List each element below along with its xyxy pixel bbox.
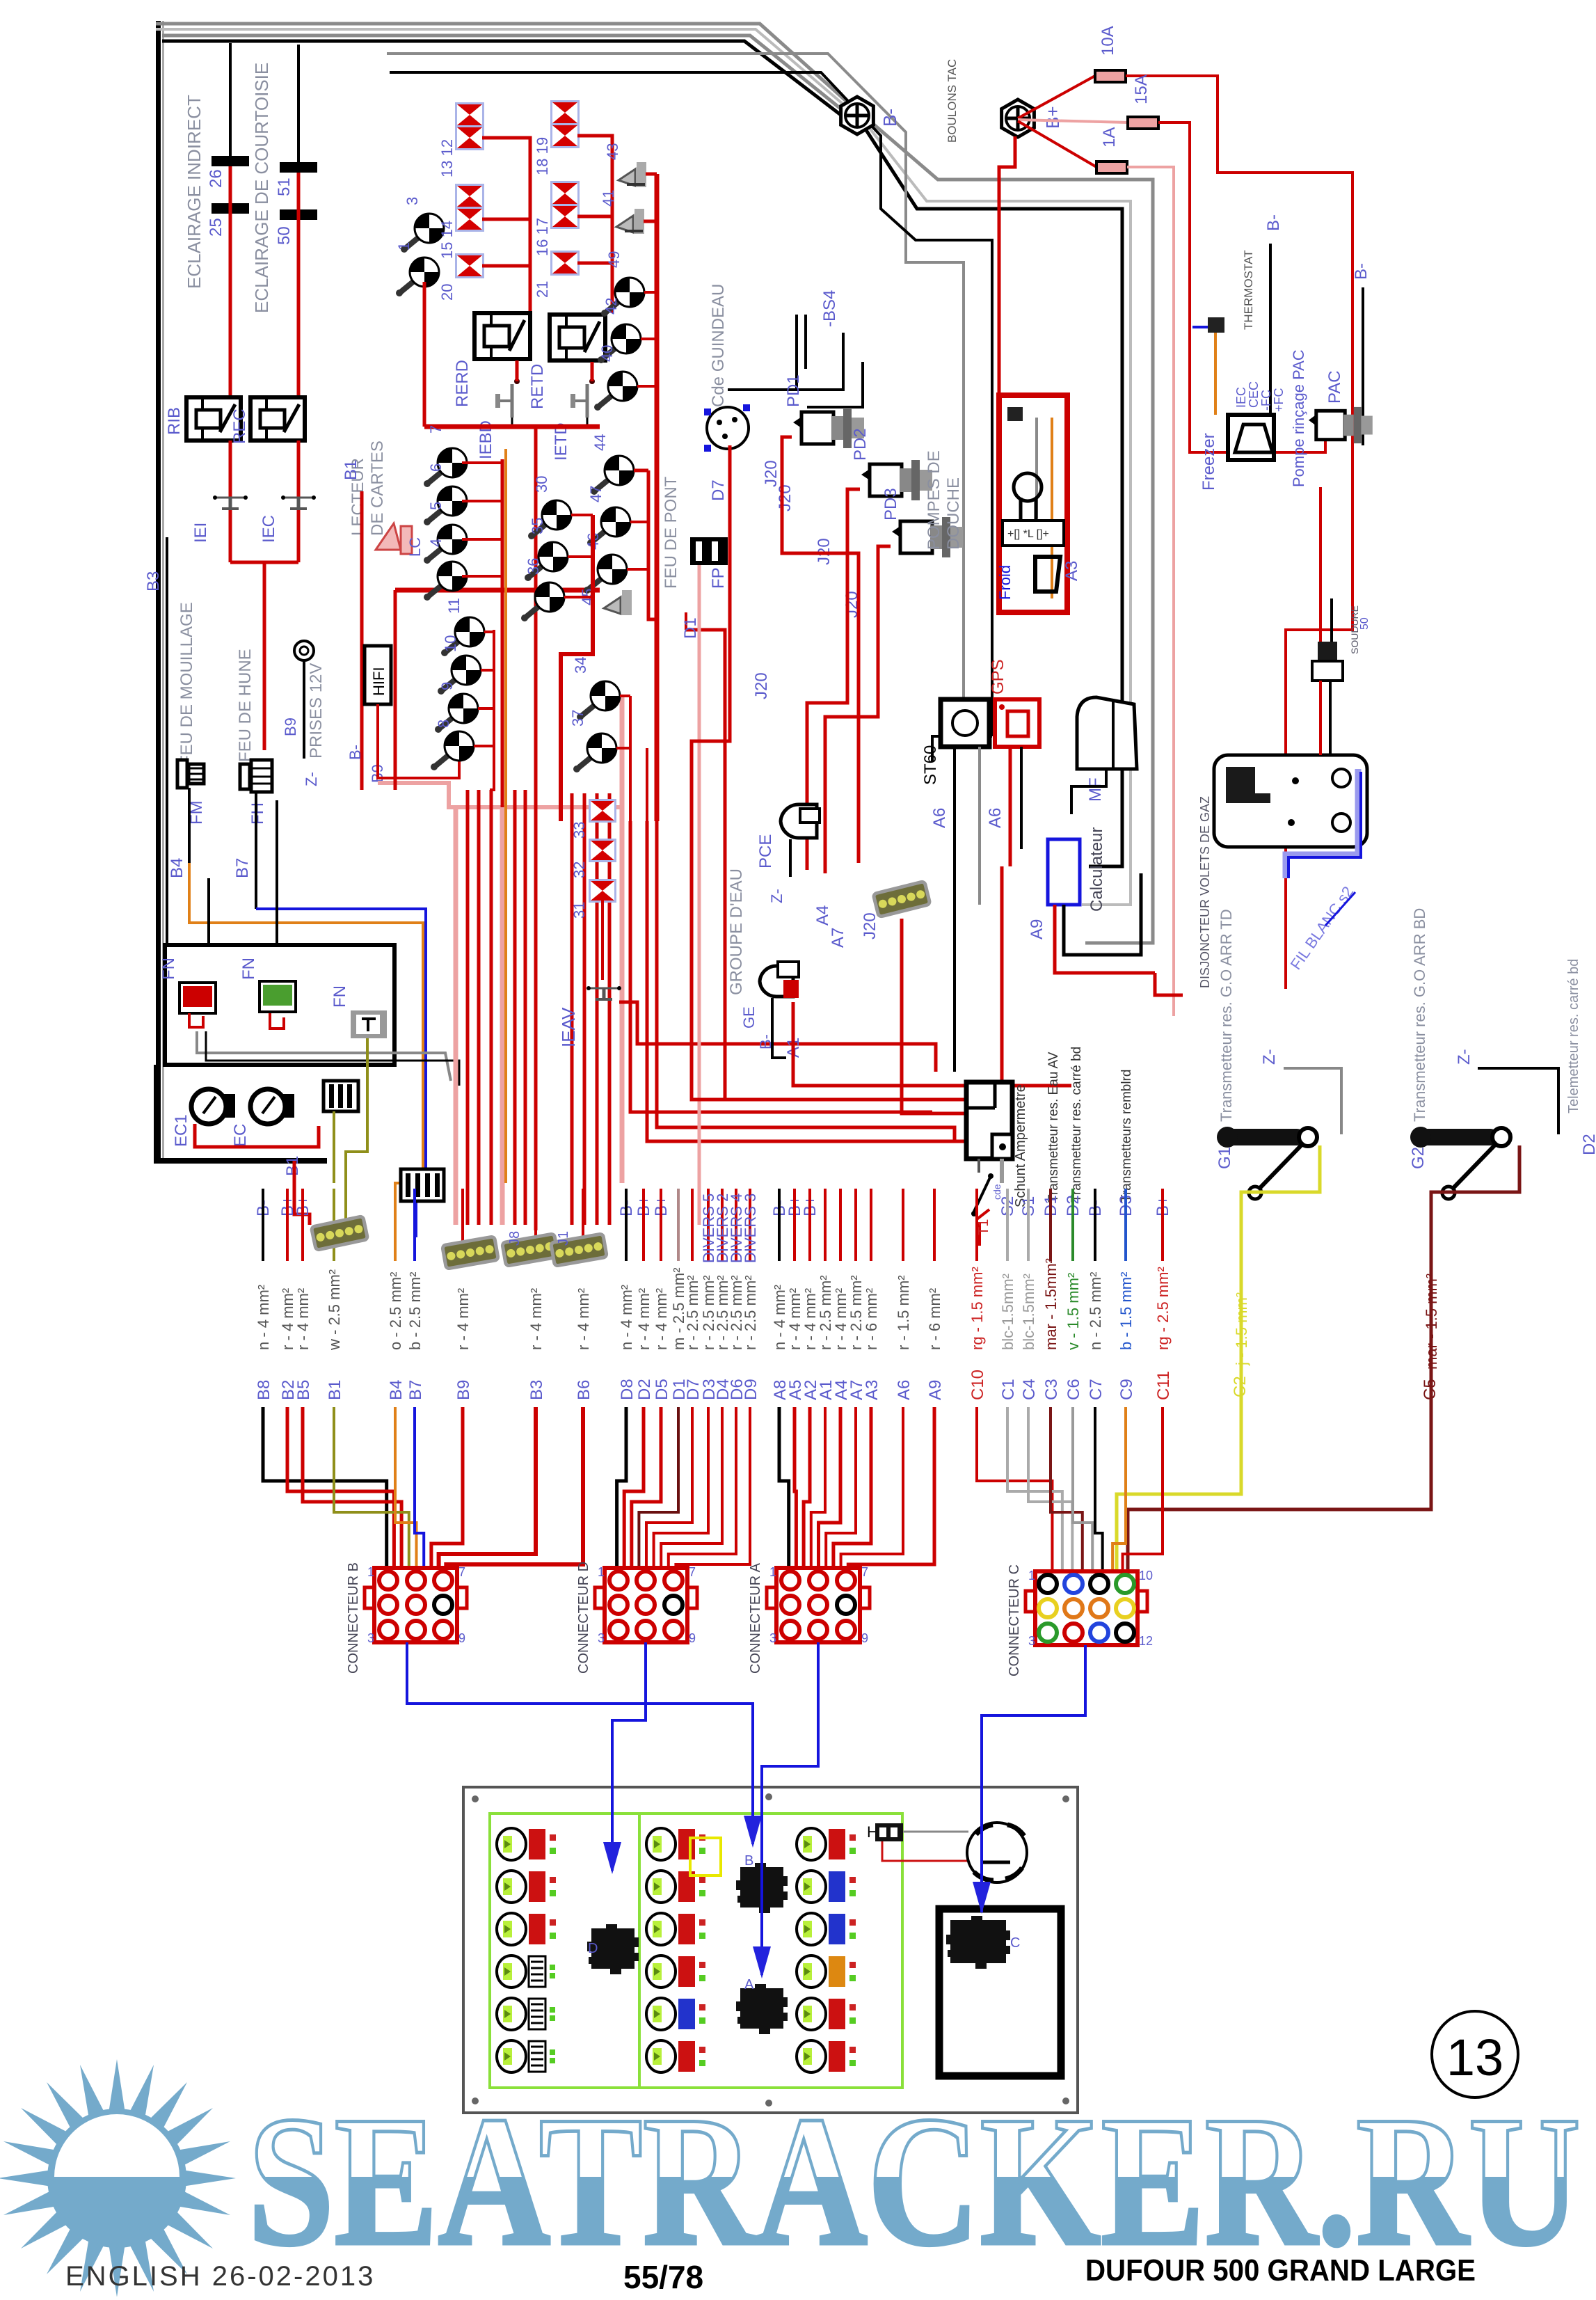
svg-text:DUFOUR 500 GRAND LARGE: DUFOUR 500 GRAND LARGE: [1085, 2253, 1476, 2287]
svg-text:FN: FN: [239, 958, 258, 980]
svg-text:41: 41: [600, 190, 617, 207]
svg-text:rg - 1.5 mm²: rg - 1.5 mm²: [968, 1267, 986, 1350]
svg-text:25: 25: [207, 218, 225, 237]
svg-text:GPS: GPS: [989, 659, 1007, 695]
svg-text:37: 37: [569, 710, 586, 727]
svg-text:Schunt Ampermetre: Schunt Ampermetre: [1013, 1084, 1028, 1207]
svg-text:A9: A9: [926, 1380, 945, 1400]
svg-text:Z-: Z-: [1260, 1049, 1279, 1065]
svg-text:IEAV: IEAV: [558, 1007, 579, 1047]
svg-text:C9: C9: [1117, 1379, 1136, 1400]
svg-text:n - 2.5 mm²: n - 2.5 mm²: [1087, 1272, 1104, 1350]
svg-text:D8: D8: [618, 1379, 637, 1400]
svg-text:1A: 1A: [1100, 127, 1119, 148]
svg-text:D7: D7: [709, 479, 728, 501]
svg-text:DOUCHE: DOUCHE: [944, 477, 963, 550]
svg-text:IEC: IEC: [1234, 387, 1248, 408]
svg-text:B-: B-: [1264, 214, 1283, 231]
svg-text:13: 13: [1446, 2029, 1503, 2086]
svg-text:C4: C4: [1020, 1379, 1039, 1400]
svg-text:B7: B7: [406, 1380, 425, 1400]
svg-text:b - 1.5 mm²: b - 1.5 mm²: [1117, 1272, 1135, 1350]
svg-text:16 17: 16 17: [534, 218, 551, 256]
svg-text:r - 2.5 mm²: r - 2.5 mm²: [742, 1275, 759, 1350]
svg-text:FN: FN: [159, 958, 178, 980]
svg-text:8: 8: [435, 720, 452, 728]
svg-text:CONNECTEUR D: CONNECTEUR D: [576, 1562, 591, 1674]
svg-text:1: 1: [367, 1565, 374, 1579]
svg-text:10: 10: [1139, 1569, 1153, 1583]
svg-text:CONNECTEUR B: CONNECTEUR B: [346, 1562, 361, 1674]
svg-text:PCE: PCE: [756, 834, 775, 869]
svg-text:Transmetteur res. Eau AV: Transmetteur res. Eau AV: [1046, 1052, 1061, 1203]
svg-text:7: 7: [861, 1565, 868, 1579]
svg-text:THERMOSTAT: THERMOSTAT: [1242, 250, 1255, 330]
svg-text:D: D: [588, 1941, 598, 1956]
svg-text:r - 4 mm²: r - 4 mm²: [294, 1288, 312, 1350]
svg-text:IEC: IEC: [260, 515, 278, 543]
svg-text:C10: C10: [968, 1370, 987, 1400]
svg-text:MF: MF: [1086, 777, 1105, 802]
svg-text:G1: G1: [1215, 1147, 1234, 1169]
svg-text:DIVERS 3: DIVERS 3: [742, 1193, 759, 1263]
svg-text:9: 9: [861, 1631, 868, 1645]
svg-text:B5: B5: [294, 1380, 313, 1400]
svg-text:43: 43: [604, 143, 621, 160]
svg-text:J20: J20: [776, 484, 795, 511]
svg-text:15 14: 15 14: [438, 221, 456, 259]
svg-text:CEC: CEC: [1247, 381, 1261, 408]
svg-text:+FC: +FC: [1272, 388, 1286, 412]
svg-text:35: 35: [529, 518, 546, 534]
svg-text:j - 1.5 mm²: j - 1.5 mm²: [1233, 1292, 1250, 1366]
svg-text:LC: LC: [406, 537, 424, 557]
svg-text:CONNECTEUR A: CONNECTEUR A: [748, 1562, 763, 1674]
svg-text:15A: 15A: [1132, 74, 1151, 104]
svg-text:B7: B7: [233, 858, 252, 878]
svg-text:D2: D2: [1580, 1134, 1596, 1155]
svg-text:5: 5: [427, 502, 445, 510]
svg-text:A6: A6: [986, 808, 1005, 828]
svg-text:B9: B9: [282, 717, 299, 736]
svg-text:1: 1: [395, 242, 413, 251]
svg-text:44: 44: [591, 434, 609, 451]
svg-text:r - 4 mm²: r - 4 mm²: [575, 1288, 592, 1350]
svg-text:J20: J20: [861, 912, 879, 939]
svg-text:ENGLISH 26-02-2013: ENGLISH 26-02-2013: [65, 2261, 375, 2292]
svg-text:B+: B+: [1042, 106, 1063, 129]
svg-text:r - 4 mm²: r - 4 mm²: [635, 1288, 653, 1350]
svg-text:J1: J1: [556, 1231, 571, 1246]
svg-text:J20: J20: [752, 672, 771, 699]
svg-text:n - 4 mm²: n - 4 mm²: [255, 1285, 272, 1350]
svg-text:G2: G2: [1409, 1147, 1428, 1169]
svg-text:w - 2.5 mm²: w - 2.5 mm²: [326, 1269, 343, 1351]
svg-text:blc-1.5mm²: blc-1.5mm²: [999, 1274, 1016, 1350]
svg-text:26: 26: [207, 169, 225, 188]
svg-text:A6: A6: [930, 808, 949, 828]
svg-text:mar - 1.5 mm²: mar - 1.5 mm²: [1423, 1274, 1440, 1370]
svg-text:Telemetteur res. carré bd: Telemetteur res. carré bd: [1566, 959, 1581, 1113]
svg-text:A4: A4: [813, 905, 832, 926]
svg-text:Transmetteur res. carré bd: Transmetteur res. carré bd: [1069, 1047, 1084, 1203]
svg-text:D1: D1: [681, 617, 700, 639]
svg-text:20: 20: [438, 284, 456, 301]
svg-text:B-: B-: [879, 109, 900, 127]
svg-text:r - 4 mm²: r - 4 mm²: [527, 1288, 545, 1350]
svg-text:blc-1.5mm²: blc-1.5mm²: [1020, 1274, 1037, 1350]
svg-text:RETD: RETD: [528, 364, 547, 409]
svg-text:n - 4 mm²: n - 4 mm²: [618, 1285, 635, 1350]
svg-text:34: 34: [572, 657, 589, 674]
svg-text:B3: B3: [527, 1380, 546, 1400]
svg-text:Froid: Froid: [996, 565, 1014, 600]
svg-text:55/78: 55/78: [623, 2259, 703, 2295]
svg-text:REC: REC: [230, 409, 249, 444]
svg-text:B1: B1: [326, 1380, 344, 1400]
svg-text:B9: B9: [454, 1380, 473, 1400]
svg-text:A9: A9: [1028, 919, 1046, 939]
svg-text:o - 2.5 mm²: o - 2.5 mm²: [387, 1272, 404, 1350]
svg-text:A7: A7: [829, 928, 847, 948]
svg-text:3: 3: [367, 1631, 374, 1645]
svg-text:50: 50: [275, 226, 294, 245]
svg-text:Calculateur: Calculateur: [1087, 827, 1106, 912]
svg-text:r - 6 mm²: r - 6 mm²: [863, 1288, 880, 1350]
svg-text:HIFI: HIFI: [370, 667, 388, 696]
svg-text:Freezer: Freezer: [1199, 433, 1218, 491]
svg-text:Z-: Z-: [768, 889, 785, 903]
svg-text:47: 47: [587, 486, 605, 502]
svg-text:D5: D5: [653, 1379, 671, 1400]
svg-text:C7: C7: [1087, 1379, 1106, 1400]
svg-text:GROUPE D'EAU: GROUPE D'EAU: [727, 869, 746, 995]
svg-text:7: 7: [689, 1565, 696, 1579]
svg-text:33: 33: [570, 822, 588, 839]
svg-text:b - 2.5 mm²: b - 2.5 mm²: [406, 1272, 424, 1350]
svg-text:42: 42: [603, 298, 620, 315]
svg-text:40: 40: [598, 345, 616, 362]
svg-text:T1: T1: [976, 1219, 991, 1235]
svg-text:9: 9: [438, 682, 456, 690]
svg-text:ECLAIRAGE INDIRECT: ECLAIRAGE INDIRECT: [184, 95, 205, 289]
svg-text:B4: B4: [168, 858, 186, 878]
svg-text:18 19: 18 19: [534, 137, 551, 175]
svg-text:50: 50: [1359, 617, 1371, 630]
svg-text:B4: B4: [387, 1380, 406, 1400]
svg-text:Pompe rinçage PAC: Pompe rinçage PAC: [1290, 349, 1307, 487]
svg-text:Transmetteurs remblrd: Transmetteurs remblrd: [1119, 1070, 1134, 1203]
svg-text:21: 21: [534, 281, 551, 298]
svg-text:4: 4: [427, 539, 445, 547]
svg-text:RERD: RERD: [453, 360, 472, 407]
svg-text:PAC: PAC: [1325, 370, 1344, 404]
svg-text:7: 7: [458, 1565, 465, 1579]
svg-text:49: 49: [605, 251, 623, 268]
svg-text:A3: A3: [1062, 561, 1081, 581]
svg-text:30: 30: [533, 476, 550, 493]
svg-text:3: 3: [769, 1631, 776, 1645]
svg-text:C6: C6: [1064, 1379, 1083, 1400]
svg-text:FN: FN: [330, 985, 349, 1008]
svg-text:Transmetteur res. G.O ARR TD: Transmetteur res. G.O ARR TD: [1218, 909, 1235, 1122]
svg-text:D2: D2: [635, 1379, 654, 1400]
svg-text:C3: C3: [1042, 1379, 1061, 1400]
svg-text:B-: B-: [346, 745, 364, 760]
svg-text:C: C: [1010, 1935, 1020, 1951]
svg-text:EC1: EC1: [172, 1114, 191, 1147]
svg-text:PRISES 12V: PRISES 12V: [307, 663, 326, 759]
svg-text:7: 7: [427, 425, 445, 434]
svg-text:B3: B3: [144, 571, 163, 592]
svg-text:RIB: RIB: [165, 407, 184, 435]
svg-text:9: 9: [458, 1631, 465, 1645]
svg-text:J20: J20: [762, 460, 781, 487]
svg-text:PD2: PD2: [851, 428, 870, 461]
svg-text:EC: EC: [231, 1124, 250, 1147]
svg-text:C11: C11: [1154, 1371, 1173, 1400]
svg-text:-FC: -FC: [1259, 390, 1273, 411]
svg-text:GE: GE: [740, 1006, 758, 1029]
svg-text:1: 1: [1028, 1569, 1035, 1583]
svg-text:B: B: [744, 1853, 753, 1869]
svg-text:PD1: PD1: [784, 374, 803, 407]
svg-text:J8: J8: [507, 1231, 522, 1246]
svg-text:3: 3: [598, 1631, 605, 1645]
svg-text:ST60: ST60: [921, 745, 940, 785]
svg-text:FH: FH: [248, 802, 267, 825]
svg-text:A6: A6: [895, 1380, 913, 1400]
svg-text:CONNECTEUR C: CONNECTEUR C: [1007, 1564, 1022, 1676]
svg-text:10: 10: [442, 635, 459, 652]
svg-text:1: 1: [769, 1565, 776, 1579]
svg-text:r - 6 mm²: r - 6 mm²: [926, 1288, 943, 1350]
svg-text:v - 1.5 mm²: v - 1.5 mm²: [1064, 1273, 1082, 1350]
svg-text:10A: 10A: [1099, 26, 1117, 56]
svg-text:C5: C5: [1421, 1379, 1439, 1400]
svg-text:B1: B1: [342, 460, 360, 480]
svg-text:51: 51: [275, 177, 294, 196]
svg-text:FEU DE PONT: FEU DE PONT: [662, 476, 680, 589]
svg-text:IEI: IEI: [191, 523, 210, 543]
svg-text:13 12: 13 12: [438, 139, 456, 177]
svg-text:32: 32: [570, 862, 588, 878]
svg-text:-BS4: -BS4: [820, 290, 839, 327]
svg-text:BOULONS TAC: BOULONS TAC: [945, 59, 959, 143]
svg-text:r - 4 mm²: r - 4 mm²: [653, 1288, 670, 1350]
svg-text:DE CARTES: DE CARTES: [368, 441, 387, 536]
svg-text:D9: D9: [742, 1379, 760, 1400]
svg-text:r - 4 mm²: r - 4 mm²: [454, 1288, 472, 1350]
svg-text:FP: FP: [709, 567, 728, 589]
svg-text:FEU DE HUNE: FEU DE HUNE: [236, 649, 255, 762]
svg-text:+[] *L []+: +[] *L []+: [1007, 528, 1049, 540]
svg-text:11: 11: [445, 598, 463, 614]
svg-text:36: 36: [525, 558, 542, 575]
svg-text:r - 1.5 mm²: r - 1.5 mm²: [895, 1275, 912, 1350]
svg-text:POMPES DE: POMPES DE: [925, 450, 943, 550]
svg-text:DISJONCTEUR VOLETS DE GAZ: DISJONCTEUR VOLETS DE GAZ: [1198, 796, 1212, 988]
svg-text:31: 31: [570, 902, 588, 919]
svg-text:C1: C1: [999, 1379, 1018, 1400]
svg-text:B8: B8: [255, 1380, 273, 1400]
svg-text:ECLAIRAGE DE COURTOISIE: ECLAIRAGE DE COURTOISIE: [251, 63, 272, 313]
svg-text:A3: A3: [863, 1380, 881, 1400]
svg-text:3: 3: [1028, 1634, 1035, 1648]
svg-text:A: A: [744, 1977, 754, 1992]
svg-text:6: 6: [427, 463, 445, 472]
svg-text:12: 12: [1139, 1634, 1153, 1648]
svg-text:Z-: Z-: [1455, 1049, 1474, 1065]
svg-text:1: 1: [598, 1565, 605, 1579]
svg-text:PD3: PD3: [881, 488, 900, 521]
svg-text:3: 3: [404, 197, 421, 205]
svg-text:B6: B6: [575, 1380, 593, 1400]
svg-text:B-: B-: [1352, 263, 1371, 280]
svg-text:rg - 2.5 mm²: rg - 2.5 mm²: [1154, 1267, 1172, 1350]
svg-text:Transmetteur res. G.O ARR BD: Transmetteur res. G.O ARR BD: [1411, 908, 1428, 1122]
svg-text:Cde GUINDEAU: Cde GUINDEAU: [709, 284, 728, 407]
svg-text:r - 2.5 mm²: r - 2.5 mm²: [684, 1275, 701, 1350]
svg-text:FEU DE MOUILLAGE: FEU DE MOUILLAGE: [177, 602, 196, 766]
svg-text:9: 9: [689, 1631, 696, 1645]
svg-text:C2: C2: [1231, 1376, 1250, 1397]
svg-text:Z-: Z-: [303, 772, 320, 786]
svg-text:mar - 1.5mm²: mar - 1.5mm²: [1042, 1258, 1060, 1350]
